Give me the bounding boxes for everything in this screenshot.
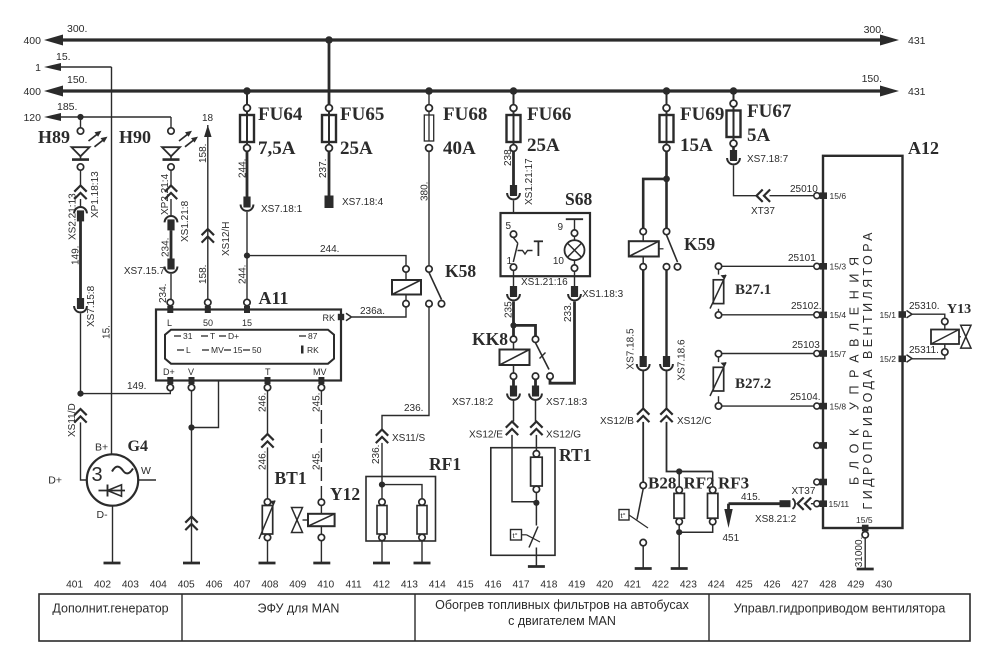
svg-text:FU67: FU67 [747, 101, 792, 122]
svg-text:423: 423 [680, 580, 697, 591]
label 380. rotated [420, 182, 431, 201]
label KK8 [472, 329, 508, 349]
wire from A11 V to ground [191, 391, 193, 563]
svg-text:BT1: BT1 [275, 468, 307, 488]
svg-text:15.: 15. [56, 51, 71, 63]
junction node 149 [77, 391, 83, 397]
connector XS12/E (chevrons) [506, 422, 518, 436]
svg-text:XP2.21:4: XP2.21:4 [160, 173, 171, 215]
label K59 [684, 234, 715, 254]
wire 415. with arrow to node 451 [724, 504, 779, 528]
A12 spare pin lower [814, 479, 827, 486]
wire KK8 coil top [513, 343, 515, 350]
relay K58 coil [392, 266, 421, 307]
wire K58 contact to RF1 feed [382, 307, 429, 429]
svg-text:XS12/G: XS12/G [546, 430, 581, 441]
svg-text:236.: 236. [404, 403, 423, 414]
label 25311. [909, 345, 939, 356]
junction RF1 feed [379, 482, 385, 488]
wire RF2 to ground [678, 532, 680, 568]
connector XS1.18:3 [568, 286, 581, 300]
svg-text:XS7.18:3: XS7.18:3 [546, 397, 588, 408]
wire below XS7.18:3 [535, 400, 537, 422]
label XS7.18:2 [452, 397, 494, 408]
label FU69 [680, 104, 724, 125]
svg-text:25104.: 25104. [790, 392, 821, 403]
wire KK8 to XS7.18:3 [534, 380, 537, 386]
label XS1.21:17 [524, 158, 535, 205]
svg-text:246.: 246. [258, 393, 269, 412]
label XS7.18:3 [546, 397, 588, 408]
junction RF2 bottom [676, 529, 682, 535]
svg-text:RF3: RF3 [718, 474, 749, 493]
label 15A [680, 135, 713, 156]
label 25101 [788, 253, 816, 264]
connector XS7.18:7 [727, 150, 740, 164]
svg-text:429: 429 [847, 580, 864, 591]
label 431 right of bus 300 [908, 35, 926, 47]
svg-text:K59: K59 [684, 234, 715, 254]
svg-text:MV: MV [313, 367, 327, 377]
label 25103 [792, 340, 820, 351]
svg-text:246.: 246. [258, 451, 269, 470]
connector XS12/H (chevrons) [202, 229, 214, 243]
A11 pin RK [338, 314, 344, 320]
svg-text:451: 451 [723, 533, 740, 544]
svg-text:421: 421 [624, 580, 641, 591]
label XP1.18:13 [90, 171, 101, 218]
label H90 [119, 127, 151, 147]
svg-text:FU69: FU69 [680, 104, 724, 125]
svg-text:15/2: 15/2 [879, 354, 896, 364]
connector XS7.15:8 [74, 298, 87, 312]
svg-text:236.: 236. [371, 445, 382, 464]
G4 terminal W label [141, 465, 151, 477]
svg-text:ГИДРОПРИВОДА ВЕНТИЛЯТОРА: ГИДРОПРИВОДА ВЕНТИЛЯТОРА [861, 232, 875, 510]
connector XS7.18:2 [507, 386, 520, 400]
ground of G4 [104, 562, 121, 565]
svg-text:158.: 158. [198, 265, 209, 284]
junction node 244 [244, 253, 250, 259]
wire FU69 to K59 [665, 152, 668, 233]
svg-text:MV: MV [211, 345, 224, 355]
wire FU67 drop [733, 91, 735, 107]
label 245. upper [312, 393, 323, 412]
svg-text:87: 87 [308, 331, 318, 341]
label XT37 lower [792, 486, 816, 497]
emission arrows of H90 [179, 131, 198, 147]
wire 25310. from pin 15/1 [912, 314, 945, 318]
label RT1 [559, 445, 591, 465]
label 149. rotated [71, 246, 82, 265]
svg-text:XS1.21:17: XS1.21:17 [524, 158, 535, 205]
wire to pin 15/11 [811, 503, 814, 505]
label 234. rotated upper [161, 238, 172, 257]
svg-text:245.: 245. [312, 451, 323, 470]
svg-text:15/8: 15/8 [830, 401, 847, 411]
svg-text:424: 424 [708, 580, 725, 591]
A12 pin 15/8 [814, 401, 847, 411]
wire 245. dashed from A11 MV [320, 391, 322, 499]
label 245. lower [312, 451, 323, 470]
block RF1 outline [366, 477, 436, 542]
svg-text:Управл.гидроприводом вентилято: Управл.гидроприводом вентилятора [734, 602, 946, 616]
wire 244. horizontal to K58 coil [247, 256, 406, 266]
resistor RF1 right [417, 499, 427, 541]
label B27.2 [735, 376, 771, 392]
wire 149. thick [79, 221, 82, 299]
connector XT37 upper (chevrons) [757, 190, 771, 202]
A12 pin 15/5 [856, 515, 873, 538]
svg-text:10: 10 [553, 256, 565, 267]
svg-text:431: 431 [908, 86, 926, 98]
wire 244. thick below FU64 [246, 152, 249, 198]
svg-text:FU66: FU66 [527, 104, 571, 125]
svg-text:15/5: 15/5 [856, 515, 873, 525]
A11 pin D+ [167, 377, 173, 391]
A11 pin 50 [205, 299, 211, 313]
label XS7.15.7 [124, 266, 166, 277]
connector XS12/G (chevrons) [530, 422, 542, 436]
wire RF1 left to ground [381, 485, 383, 563]
column number row 401-430 [66, 580, 892, 591]
connector XS7.18.5 [637, 356, 650, 370]
connector chevrons on BT1 wire [261, 434, 273, 448]
label 246. lower [258, 451, 269, 470]
wire 237. below FU65 [328, 152, 331, 197]
S68 lamp [565, 237, 585, 261]
fuse FU65 [322, 105, 336, 152]
svg-text:XS12/E: XS12/E [469, 430, 503, 441]
S68 pin 5 [506, 221, 517, 237]
svg-text:RT1: RT1 [559, 445, 591, 465]
svg-text:409: 409 [289, 580, 306, 591]
label XS12/E [469, 430, 503, 441]
legend cell fan hydraulic drive control [734, 602, 946, 616]
svg-text:V: V [188, 367, 194, 377]
A12 spare pin upper [814, 442, 827, 449]
svg-text:185.: 185. [57, 101, 77, 113]
svg-text:XP1.18:13: XP1.18:13 [90, 171, 101, 218]
svg-text:425: 425 [736, 580, 753, 591]
S68 actuator symbol [518, 241, 544, 256]
svg-text:25101: 25101 [788, 253, 816, 264]
wire 25311. to pin 15/2 [912, 355, 945, 358]
connector XS7.18:3 [529, 386, 542, 400]
A11 pin 15 [244, 299, 250, 313]
emission arrows of H89 [89, 131, 108, 147]
relay KK8 coil [500, 336, 530, 379]
svg-text:380.: 380. [420, 182, 431, 201]
wire 149. horizontal to A11 D+ [81, 391, 171, 394]
label B28 [648, 474, 676, 493]
legend cell fuel filter heating [435, 598, 689, 628]
label 31000. [854, 537, 865, 568]
svg-text:B27.1: B27.1 [735, 282, 771, 298]
thermistor B27.2 [710, 351, 726, 410]
ground A12 [857, 568, 874, 571]
label XS7.18:1 [261, 204, 303, 215]
svg-text:RK: RK [307, 345, 319, 355]
label 25A value FU66 [527, 135, 560, 156]
svg-text:A12: A12 [908, 138, 939, 158]
label XS7.18.5 [626, 328, 637, 370]
A11 pin MV label [313, 367, 327, 377]
wire RF3 drop [712, 472, 714, 487]
svg-text:422: 422 [652, 580, 669, 591]
A11 pin V [188, 377, 194, 391]
label BT1 [275, 468, 307, 488]
wire B28 to ground [642, 546, 644, 569]
wire 15 vertical to G4 B+ [111, 67, 113, 455]
label 25A [340, 138, 373, 159]
A12 pin 15/11 [820, 499, 850, 509]
svg-text:413: 413 [401, 580, 418, 591]
label 236. rotated [371, 445, 382, 464]
wire 25102 [722, 314, 814, 316]
label 15. rotated [102, 325, 113, 339]
A12 pin 15/7 [814, 349, 847, 359]
label 25310. [909, 301, 940, 312]
svg-text:Обогрев топливных фильтров на: Обогрев топливных фильтров на автобусах [435, 598, 689, 612]
svg-text:XS12/B: XS12/B [600, 416, 634, 427]
connector XS2.21:13/XP1.18:13 (chevrons) [74, 186, 86, 200]
label XS1.21:16 [521, 277, 568, 288]
junction FU68 on bus 150 [425, 87, 433, 95]
wire KK8 coil bottom [513, 365, 515, 373]
label FU65 [340, 104, 384, 125]
label XS11/D [67, 403, 78, 437]
svg-text:411: 411 [345, 580, 362, 591]
svg-text:5A: 5A [747, 125, 771, 146]
svg-text:15/3: 15/3 [830, 262, 847, 272]
label 149. [127, 381, 146, 392]
A11 pin RK label [322, 313, 335, 323]
legend table frame [39, 594, 970, 641]
wire 31000. from pin 15/5 [864, 538, 866, 569]
svg-text:t°: t° [513, 531, 518, 540]
svg-text:XT37: XT37 [751, 206, 775, 217]
wire KK8 feed branch [514, 325, 536, 336]
connector XS12/B (chevrons) [637, 409, 649, 423]
resistor RF1 left [377, 499, 387, 541]
terminal XS7.18:4 (blind pin) [325, 196, 334, 209]
svg-text:416: 416 [485, 580, 502, 591]
svg-text:FU68: FU68 [443, 104, 487, 125]
label XS7.18:4 [342, 197, 384, 208]
svg-text:ЭФУ для MAN: ЭФУ для MAN [258, 602, 340, 616]
wire RF3 bottom [679, 525, 713, 532]
label 236. near corner [404, 403, 423, 414]
svg-text:234.: 234. [161, 238, 172, 257]
label 451 [723, 533, 740, 544]
svg-text:KK8: KK8 [472, 329, 508, 349]
label XS2.21:13 [68, 193, 79, 240]
wire XS7.18.6 down [665, 270, 667, 356]
svg-text:50: 50 [252, 345, 262, 355]
junction RT1 [533, 500, 539, 506]
solenoid valve Y13 [931, 318, 971, 355]
wire Y12 to ground [320, 541, 322, 563]
wire 236. into RF1 [381, 443, 383, 485]
svg-text:403: 403 [122, 580, 139, 591]
wire 234. to A11 pin L [170, 274, 172, 300]
connector XS1.21:16 [507, 286, 520, 300]
svg-text:120: 120 [23, 112, 41, 124]
svg-text:XT37: XT37 [792, 486, 816, 497]
svg-text:XS7.18.6: XS7.18.6 [677, 339, 688, 381]
svg-text:40A: 40A [443, 138, 476, 159]
relay K59 contact [659, 228, 681, 270]
ground of V wire [183, 562, 200, 565]
svg-text:405: 405 [178, 580, 195, 591]
relay K58 contact [426, 266, 445, 307]
wire H89 to connector [80, 170, 82, 185]
block A11 outline [156, 310, 341, 381]
A11 pin T [264, 377, 270, 391]
svg-text:25103: 25103 [792, 340, 820, 351]
label XP2.21:4 [160, 173, 171, 215]
label FU68 [443, 104, 487, 125]
svg-text:15/6: 15/6 [830, 191, 847, 201]
svg-text:5: 5 [506, 221, 512, 232]
fuse FU66 [507, 105, 521, 152]
A11 pin T label [265, 367, 271, 377]
resistor RT1 [531, 451, 543, 493]
G4 terminal D- label [97, 509, 109, 521]
G4 terminal W [138, 479, 156, 481]
label 400 left of bus 300 [23, 35, 41, 47]
label 150. right [862, 73, 882, 85]
svg-text:408: 408 [261, 580, 278, 591]
S68 lamp pin 10 [553, 256, 578, 271]
label XS7.15:8 [86, 285, 97, 327]
svg-text:25102.: 25102. [791, 301, 822, 312]
svg-text:1: 1 [35, 62, 41, 74]
junction FU65 on bus 300 [325, 36, 333, 44]
wire [80, 199, 82, 208]
connector chevrons on V wire [185, 517, 197, 531]
svg-text:H90: H90 [119, 127, 151, 147]
wire to B28 [642, 422, 644, 482]
wire 380. to K58 switch [428, 151, 430, 265]
junction node K59 feed [663, 176, 670, 183]
lamp H89 [72, 117, 90, 170]
svg-text:417: 417 [513, 580, 530, 591]
svg-text:25A: 25A [340, 138, 373, 159]
svg-text:B+: B+ [95, 442, 108, 454]
G4 phase count 3 [92, 464, 103, 486]
G4 terminal B+ label [95, 442, 108, 454]
wire RF1 right to ground [421, 541, 423, 563]
label A11 [259, 288, 289, 308]
wire 236a. from RK to K58 coil [352, 307, 406, 317]
wire S68 pin10 out [574, 272, 576, 288]
label 300. left [67, 23, 87, 35]
ground RF1 left [373, 562, 390, 565]
svg-text:БЛОК УПРАВЛЕНИЯ: БЛОК УПРАВЛЕНИЯ [848, 257, 862, 485]
legend cell additional generator [52, 602, 168, 616]
wire below FU67 [732, 147, 735, 151]
wire into S68 [513, 201, 515, 215]
label 244. rotated lower [238, 265, 249, 284]
svg-text:XS1.21:8: XS1.21:8 [180, 200, 191, 242]
label K58 [445, 261, 476, 281]
wire FU66 drop [513, 91, 515, 112]
wire 25010 to A12 pin 15/6 [734, 166, 815, 196]
thermal switch B28 [619, 482, 648, 546]
pin circle 15/6 [814, 193, 820, 199]
wire RT1 resistor top [535, 435, 537, 451]
svg-text:431: 431 [908, 35, 926, 47]
wire FU65 drop from bus 300 [328, 40, 331, 112]
wire 233. from XS1.18:3 to KK8 contact [550, 302, 575, 384]
svg-text:244.: 244. [238, 265, 249, 284]
label 244. horizontal [320, 244, 339, 255]
svg-text:15: 15 [233, 345, 243, 355]
svg-text:W: W [141, 465, 151, 477]
ground B28 [635, 567, 652, 570]
label 158. upper [198, 144, 209, 163]
label block A12 text line 2 [861, 232, 875, 510]
svg-text:L: L [167, 318, 172, 328]
svg-text:XS7.15.7: XS7.15.7 [124, 266, 166, 277]
label 25102. [791, 301, 822, 312]
label 40A [443, 138, 476, 159]
wire KK8 to XS7.18:2 [512, 380, 515, 386]
svg-text:427: 427 [792, 580, 809, 591]
solenoid valve Y12 [292, 499, 335, 541]
svg-text:25311.: 25311. [909, 345, 939, 356]
svg-text:XS11/D: XS11/D [67, 403, 78, 437]
svg-text:XS12/C: XS12/C [677, 416, 711, 427]
A11 pin 15 label [242, 318, 252, 328]
A12 pin 15/6 [820, 191, 847, 201]
svg-text:400: 400 [23, 35, 41, 47]
ground RF1 right [414, 562, 431, 565]
junction V branch [188, 424, 194, 430]
S68 switch blade [513, 238, 518, 262]
svg-text:A11: A11 [259, 288, 289, 308]
wire BT1 to ground [267, 541, 269, 563]
fuse FU68 [424, 105, 433, 152]
A12 pin 15/1 [879, 310, 912, 320]
wire RT1 out to ground [535, 548, 537, 567]
wire bus 300 (top supply rail) [44, 35, 899, 46]
label XT37 upper [751, 206, 775, 217]
svg-text:412: 412 [373, 580, 390, 591]
svg-text:410: 410 [317, 580, 334, 591]
label Y12 [330, 484, 360, 504]
label 25010 [790, 184, 818, 195]
svg-text:3: 3 [92, 464, 103, 486]
wire K59 coil branch [643, 179, 666, 228]
label XS12/B [600, 416, 634, 427]
svg-text:G4: G4 [128, 438, 148, 455]
A12 pin 15/3 [814, 262, 847, 272]
wire RT1 resistor bottom [535, 493, 537, 503]
wire to XS12/B [642, 371, 644, 409]
label 18 [202, 113, 214, 124]
connector socket over pin (H89 drop) [74, 207, 87, 221]
svg-text:XS2.21:13: XS2.21:13 [68, 193, 79, 240]
svg-text:с двигателем MAN: с двигателем MAN [508, 614, 616, 628]
A11 RK open arrow [346, 313, 352, 321]
svg-text:9: 9 [557, 222, 563, 233]
svg-text:K58: K58 [445, 261, 476, 281]
junction FU64 on bus 150 [243, 87, 251, 95]
svg-text:RK: RK [322, 313, 335, 323]
